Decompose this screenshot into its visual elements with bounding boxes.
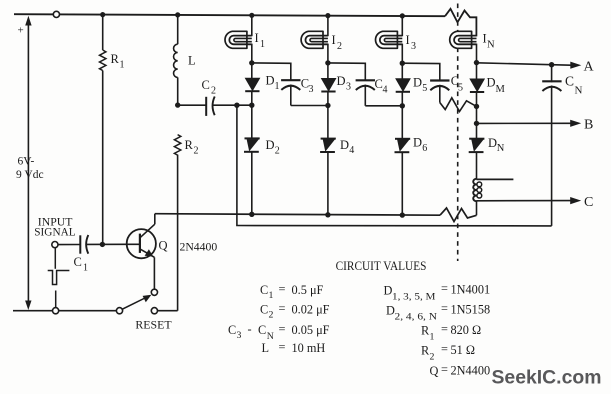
svg-text:B: B <box>584 118 593 133</box>
svg-text:3: 3 <box>411 41 416 52</box>
transistor Q <box>127 229 156 258</box>
svg-text:A: A <box>584 60 595 75</box>
capacitor C2 <box>180 104 206 106</box>
svg-text:I: I <box>332 33 336 47</box>
svg-text:2, 4, 6, N: 2, 4, 6, N <box>395 312 438 323</box>
svg-text:820 Ω: 820 Ω <box>451 323 482 337</box>
svg-text:D: D <box>488 136 497 150</box>
svg-text:2: 2 <box>275 146 280 157</box>
reset contact <box>151 308 157 314</box>
svg-text:+: + <box>18 25 24 37</box>
node IN/DM/A <box>474 60 479 65</box>
svg-text:D: D <box>266 138 275 152</box>
svg-text:=: = <box>441 282 448 296</box>
output line A <box>477 63 571 65</box>
diode DM <box>476 63 478 79</box>
svg-text:3: 3 <box>309 84 314 95</box>
input terminal lower <box>53 308 59 314</box>
node B <box>474 121 479 126</box>
svg-text:=: = <box>441 363 448 377</box>
svg-text:10 mH: 10 mH <box>292 341 326 355</box>
svg-text:I: I <box>406 33 410 47</box>
svg-text:1: 1 <box>260 39 265 50</box>
svg-text:2N4400: 2N4400 <box>451 364 491 378</box>
svg-text:3: 3 <box>237 330 242 341</box>
diode DN <box>469 139 485 152</box>
svg-text:=: = <box>441 322 448 336</box>
top supply rail <box>14 14 445 16</box>
svg-text:D: D <box>487 76 496 90</box>
output line B <box>477 122 571 124</box>
node dot L top <box>175 12 180 17</box>
svg-text:CIRCUIT VALUES: CIRCUIT VALUES <box>336 259 427 273</box>
resistor R1 <box>102 15 104 50</box>
lamp I3 <box>401 16 403 36</box>
reset contact wire to R2 <box>158 310 178 312</box>
capacitor C1 <box>58 244 80 246</box>
diode D5 <box>401 63 403 78</box>
input terminal upper <box>52 242 58 248</box>
svg-text:C: C <box>565 74 574 89</box>
svg-text:9 Vdc: 9 Vdc <box>16 169 44 181</box>
svg-text:C: C <box>260 303 268 317</box>
node D3 bottom <box>325 103 330 108</box>
node I2/D3/C4 <box>325 60 330 65</box>
svg-text:M: M <box>496 84 506 95</box>
svg-text:RESET: RESET <box>135 318 172 332</box>
emitter wire <box>153 257 155 289</box>
svg-text:C: C <box>258 323 266 337</box>
svg-text:4: 4 <box>349 145 354 156</box>
capacitor C3 with link wire <box>252 63 291 80</box>
diode D2 <box>251 105 253 138</box>
svg-text:SeekIC.com: SeekIC.com <box>492 367 602 389</box>
svg-text:1: 1 <box>275 81 280 92</box>
diode D4 <box>327 106 329 139</box>
svg-text:1: 1 <box>83 263 88 274</box>
svg-text:2: 2 <box>194 146 199 157</box>
node dot I2 top <box>325 13 330 18</box>
svg-text:2: 2 <box>430 352 435 363</box>
svg-text:I: I <box>255 31 259 45</box>
lamp IN <box>450 31 477 48</box>
output line C <box>477 200 571 202</box>
node D5 bottom <box>400 103 405 108</box>
svg-text:2N4400: 2N4400 <box>180 241 218 254</box>
coil bottom wire <box>476 201 478 216</box>
reset switch blade <box>122 297 148 310</box>
svg-text:Q: Q <box>159 239 168 253</box>
capacitor CN <box>551 65 553 83</box>
svg-text:3: 3 <box>346 82 351 93</box>
svg-text:0.5 μF: 0.5 μF <box>292 283 324 297</box>
node dot I1 top <box>249 13 254 18</box>
node dot R1 bottom <box>100 242 105 247</box>
svg-text:C: C <box>228 323 236 337</box>
resistor R2 <box>174 135 180 155</box>
svg-text:N: N <box>497 143 505 154</box>
svg-text:0.02 μF: 0.02 μF <box>292 303 330 317</box>
svg-text:6: 6 <box>422 143 427 154</box>
svg-text:4: 4 <box>383 85 388 96</box>
svg-text:1: 1 <box>120 60 125 71</box>
svg-text:=: = <box>441 342 448 356</box>
svg-text:N: N <box>487 40 495 51</box>
node I1/D1/C3 <box>249 60 254 65</box>
mid bus segment stage1-2 <box>291 105 328 107</box>
open terminal on top rail <box>53 11 59 17</box>
pulse waveform symbol <box>54 248 56 269</box>
diode D6 <box>401 106 403 139</box>
svg-text:=: = <box>279 302 286 316</box>
svg-text:D: D <box>413 136 422 150</box>
collector bus <box>154 214 156 225</box>
inductor L <box>177 15 179 44</box>
capacitor C4 with link wire <box>328 63 365 80</box>
node dot I3 top <box>400 13 405 18</box>
svg-text:N: N <box>575 85 583 97</box>
svg-text:1N4001: 1N4001 <box>451 283 491 297</box>
svg-text:1: 1 <box>430 332 435 343</box>
bus2 from C2 node down and right to CN <box>237 105 552 226</box>
svg-text:2: 2 <box>337 41 342 52</box>
svg-text:Q: Q <box>430 364 439 378</box>
svg-text:C: C <box>74 255 82 269</box>
node DM bottom <box>474 104 479 109</box>
svg-text:1: 1 <box>269 290 274 301</box>
svg-text:D: D <box>413 75 422 89</box>
svg-text:C: C <box>202 78 210 92</box>
wire DM to B <box>476 106 478 138</box>
battery wire with arrows <box>27 22 29 303</box>
relay coil <box>473 179 476 201</box>
svg-text:L: L <box>262 341 270 355</box>
reset switch emitter contact <box>151 289 157 295</box>
svg-text:=: = <box>441 302 448 316</box>
diode D3 <box>327 63 329 79</box>
node L/C2/R2 <box>175 102 180 107</box>
mid bus break zigzag to node <box>440 98 477 112</box>
node dot R1 top <box>100 12 105 17</box>
svg-text:1, 3, 5, M: 1, 3, 5, M <box>392 292 436 303</box>
reset switch pivot contact <box>116 308 122 314</box>
node D1 bottom / C2 <box>249 103 254 108</box>
svg-text:C: C <box>260 283 268 297</box>
top rail break zigzag <box>445 9 476 37</box>
node I3/D5/C5 <box>400 61 405 66</box>
node bus2 corner dot <box>234 103 239 108</box>
svg-text:=: = <box>279 340 286 354</box>
svg-text:=: = <box>279 322 286 336</box>
svg-text:2: 2 <box>269 310 274 321</box>
node dot D2 bottom <box>249 212 254 217</box>
svg-text:6V-: 6V- <box>18 156 35 168</box>
node dot D6 bottom <box>400 212 405 217</box>
svg-text:2: 2 <box>211 86 216 97</box>
bottom-left ground rail <box>13 310 53 312</box>
svg-text:5: 5 <box>458 83 463 94</box>
svg-text:D: D <box>266 74 275 88</box>
lamp I1 <box>251 15 253 36</box>
svg-text:SIGNAL: SIGNAL <box>34 227 75 239</box>
capacitor C5 with link wire <box>402 63 440 80</box>
dashed continuation line <box>457 4 459 262</box>
svg-text:D: D <box>340 138 349 152</box>
svg-text:=: = <box>279 282 286 296</box>
svg-text:R: R <box>111 52 120 66</box>
collector bus break zigzag <box>440 208 477 222</box>
diode D1 <box>251 63 253 78</box>
node dot D4 bottom <box>325 212 330 217</box>
svg-text:D: D <box>337 74 346 88</box>
relay coil tap wire <box>477 178 514 180</box>
lamp I2 <box>327 16 329 37</box>
svg-text:R: R <box>185 138 194 152</box>
svg-text:L: L <box>188 54 196 68</box>
node CN top <box>549 62 554 67</box>
mid bus segment stage2-3 <box>365 105 402 107</box>
svg-text:51 Ω: 51 Ω <box>451 343 476 357</box>
svg-text:-: - <box>248 322 252 336</box>
svg-text:5: 5 <box>422 83 427 94</box>
svg-text:1N5158: 1N5158 <box>451 303 491 317</box>
svg-text:C: C <box>584 195 593 210</box>
svg-text:0.05 μF: 0.05 μF <box>292 323 330 337</box>
